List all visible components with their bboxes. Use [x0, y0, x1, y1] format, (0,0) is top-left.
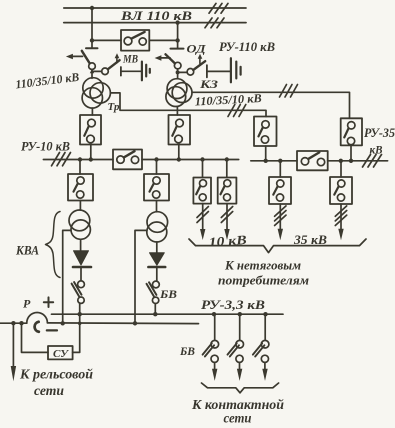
wire БВ 1 to plus bus	[79, 303, 81, 314]
nodes on bus РУ-10	[78, 157, 229, 161]
brace under 10/35 kV feeders	[189, 239, 366, 253]
breaker cell transformer 1 10kV	[80, 115, 101, 145]
diode rectifier 1	[73, 251, 91, 267]
svg-text:сети: сети	[34, 383, 64, 398]
svg-text:БВ: БВ	[159, 287, 177, 301]
converter unit 2: breaker cell	[144, 174, 169, 201]
svg-text:КЗ: КЗ	[199, 77, 218, 91]
transformer Тр 1 (three windings)	[82, 78, 110, 108]
disconnector feeder 1 fixed contact T-bar	[86, 47, 98, 49]
wire bus to 10kV feeder 2	[226, 160, 228, 178]
svg-text:потребителям: потребителям	[218, 273, 309, 288]
wire minus to СУ	[22, 323, 49, 352]
short-circuiter КЗ hinge circle	[187, 69, 194, 76]
svg-text:СУ: СУ	[53, 348, 69, 360]
wire cell to bus РУ-35	[265, 146, 267, 161]
short-circuiter КЗ blade	[193, 61, 205, 70]
breaker cell 35kV incoming 1	[254, 117, 277, 147]
brace КВА	[46, 212, 61, 278]
breaker cell 10kV feeder 2	[218, 178, 237, 204]
svg-text:кВ: кВ	[370, 145, 383, 157]
nodes on plus bus	[78, 312, 268, 316]
node bypass right	[175, 38, 179, 42]
node feeder 2 branch	[176, 70, 180, 74]
breaker МВ blade arrow	[115, 53, 120, 63]
svg-text:10 кВ: 10 кВ	[208, 232, 247, 250]
svg-text:ВЛ 110 кВ: ВЛ 110 кВ	[120, 8, 193, 23]
wire БВ 2 to plus bus	[154, 304, 156, 315]
disconnector ОД feeder 2 drive arrow	[155, 55, 170, 60]
wire transformer 2 35kV line	[192, 92, 350, 118]
feeder РУ-3,3 #2	[228, 314, 244, 381]
reactor Р arc	[27, 313, 48, 323]
35kV feeder 1 line with hatches and arrow	[275, 204, 286, 240]
reactor Р lower hook	[35, 322, 39, 332]
converter unit 1: breaker cell	[68, 174, 93, 201]
plus bus РУ-3,3 кВ	[52, 313, 284, 315]
hatch on bus РУ-35	[363, 155, 382, 168]
breaker МВ blade	[108, 60, 120, 69]
wire feeder 1 branch to МВ	[92, 70, 102, 72]
wire СУ to plus bus	[73, 314, 80, 352]
svg-text:БВ: БВ	[179, 344, 195, 358]
node on bus line 1	[90, 6, 94, 10]
nodes on minus line	[11, 321, 137, 325]
wire unit 2 cell to transformer	[156, 201, 158, 212]
wire diode 2 to БВ	[156, 268, 158, 281]
disconnector ОД feeder 2 hinge	[174, 62, 181, 69]
wire bypass right	[149, 39, 177, 41]
arrow on feeder 1 wire	[90, 69, 94, 73]
svg-text:К рельсовой: К рельсовой	[19, 367, 94, 382]
wire feeder 1 drop	[91, 8, 93, 47]
fast breaker БВ unit 1	[72, 281, 85, 304]
breaker cell 35kV feeder 1	[269, 177, 291, 204]
rectifier transformer 1	[69, 210, 90, 239]
svg-text:сети: сети	[224, 411, 252, 426]
wire transformer 2 to cell	[176, 107, 178, 116]
hatch on bus line 1	[209, 3, 228, 13]
ground symbol at КЗ	[207, 58, 241, 82]
wire feeder 2 drop	[177, 23, 179, 48]
minus line right part	[47, 322, 198, 325]
svg-text:РУ-110 кВ: РУ-110 кВ	[219, 40, 275, 54]
bus РУ-35 кВ right section	[328, 160, 388, 162]
svg-text:РУ-35: РУ-35	[364, 126, 395, 140]
bus ВЛ 110 кВ line 2	[64, 22, 246, 24]
svg-text:110/35/10 кВ: 110/35/10 кВ	[194, 91, 262, 108]
disconnector feeder 1 blade	[82, 51, 90, 63]
svg-text:РУ-10 кВ: РУ-10 кВ	[21, 140, 70, 154]
breaker cell transformer 2 10kV	[169, 115, 191, 145]
wire unit 2 minus tap	[135, 230, 147, 323]
wire feeder 2 to transformer	[177, 69, 179, 79]
node bypass left	[90, 38, 94, 42]
feeder РУ-3,3 #1	[203, 314, 219, 381]
bus РУ-35 кВ left section	[251, 160, 297, 162]
plus sign	[44, 297, 53, 307]
wire to rail network with arrow	[11, 323, 16, 381]
ground symbol at МВ	[121, 62, 150, 81]
minus line left part	[0, 322, 27, 324]
node on bus line 2	[175, 20, 179, 24]
svg-text:Тр: Тр	[108, 101, 120, 113]
10kV feeder 2 line with hatches and arrow	[221, 204, 232, 240]
brace under contact network feeders	[202, 383, 279, 393]
wire bus to 35kV feeder 2	[340, 161, 342, 177]
disconnector feeder 1 hinge	[89, 63, 96, 70]
sectional breaker РУ-10 box	[113, 150, 142, 170]
bus РУ-10 кВ left section	[43, 159, 113, 161]
wire transformer 1 to diode	[80, 239, 82, 250]
feeder РУ-3,3 #3	[253, 314, 269, 381]
svg-text:ОД: ОД	[187, 42, 207, 56]
hatch on transformer 1 35kV line	[228, 105, 246, 117]
short-circuiter КЗ blade arrow	[198, 54, 203, 64]
minus sign	[47, 329, 57, 331]
wire bus to unit 2	[156, 160, 158, 175]
fast breaker БВ unit 2	[147, 281, 160, 303]
wire feeder 2 branch to КЗ	[178, 71, 188, 73]
disconnector feeder 1 drive arrow	[66, 54, 83, 59]
wire unit 1 minus tap	[63, 230, 71, 323]
wire bus to 35kV feeder 1	[279, 161, 281, 177]
wire unit 1 cell to transformer	[79, 201, 81, 211]
wire diode 1 to БВ	[80, 268, 82, 280]
hatch on bus РУ-10	[52, 153, 71, 166]
breaker cell 10kV feeder 1	[193, 178, 211, 204]
wire feeder 1 to transformer	[91, 70, 93, 79]
svg-text:35 кВ: 35 кВ	[293, 233, 327, 247]
disconnector ОД feeder 2 fixed contact T-bar	[171, 48, 184, 50]
svg-text:110/35/10 кВ: 110/35/10 кВ	[15, 70, 80, 92]
wire bypass left	[92, 39, 121, 41]
bus РУ-10 кВ right section	[142, 159, 239, 161]
disconnector ОД feeder 2 blade	[166, 54, 175, 63]
svg-text:МВ: МВ	[122, 52, 138, 66]
svg-text:Р: Р	[23, 297, 31, 311]
breaker МВ bypass box	[121, 30, 149, 51]
rectifier transformer 2	[147, 212, 168, 242]
10kV feeder 1 line with hatches and arrow	[197, 204, 208, 240]
breaker cell 35kV feeder 2	[330, 177, 352, 204]
transformer Тр 2 (three windings)	[166, 79, 192, 107]
35kV feeder 2 line with hatches and arrow	[335, 204, 346, 240]
nodes on bus РУ-35	[264, 159, 354, 163]
svg-text:КВА: КВА	[15, 243, 39, 258]
wire cell to bus РУ-10	[90, 145, 92, 160]
hatch on bus line 2	[205, 18, 224, 28]
bus ВЛ 110 кВ line 1	[64, 7, 246, 9]
breaker cell 35kV incoming 2	[341, 118, 362, 145]
sectional breaker РУ-35 box	[297, 151, 328, 170]
wire cell to bus РУ-35	[350, 145, 352, 160]
wire transformer 1 to cell	[91, 108, 93, 115]
wire bus to unit 1	[79, 160, 81, 175]
wire transformer 2 to diode	[156, 242, 158, 252]
wire bus to 10kV feeder 1	[202, 160, 204, 178]
wire cell 2 to bus РУ-10	[178, 145, 180, 160]
svg-text:РУ-3,3 кВ: РУ-3,3 кВ	[201, 298, 265, 312]
diode rectifier 2	[148, 253, 165, 267]
breaker МВ hinge circle	[102, 68, 109, 75]
filter СУ box	[48, 346, 73, 359]
svg-text:К нетяговым: К нетяговым	[224, 258, 301, 273]
hatch on transformer 2 35kV line	[280, 85, 298, 98]
wire transformer 1 35kV stub	[110, 93, 266, 117]
